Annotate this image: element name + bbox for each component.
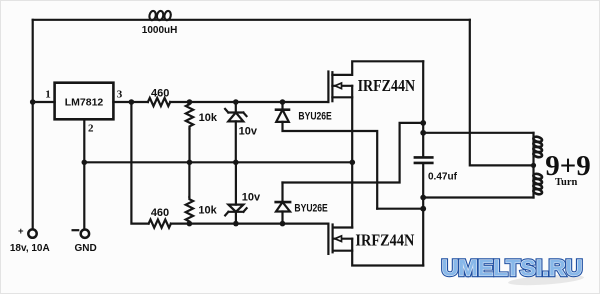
- svg-text:Turn: Turn: [555, 177, 578, 188]
- zener D1 10v (upper): [235, 102, 237, 113]
- node pin1 junction: [30, 99, 36, 105]
- transformer T1 core line: [532, 133, 534, 198]
- svg-text:18v, 10A: 18v, 10A: [10, 243, 50, 254]
- wire transformer top lead: [423, 132, 533, 134]
- svg-text:460: 460: [151, 87, 169, 99]
- node R2/upper-bus junction: [187, 99, 193, 105]
- svg-text:IRFZ44N: IRFZ44N: [358, 76, 416, 95]
- svg-text:10k: 10k: [199, 112, 218, 124]
- svg-text:1000uH: 1000uH: [142, 25, 178, 36]
- node gnd/Q1-source junction: [350, 160, 356, 166]
- wire top rail: [33, 19, 470, 21]
- wire Q1 source to Q2 drain rail: [351, 86, 353, 228]
- node center tap: [531, 163, 536, 168]
- minus sign: [73, 229, 79, 231]
- capacitor C1 0.47uf: [422, 61, 424, 157]
- svg-text:GND: GND: [74, 243, 96, 254]
- transistor Q1 IRFZ44N (upper): [327, 72, 329, 103]
- wire left vertical rail: [32, 20, 34, 229]
- svg-text:2: 2: [88, 123, 94, 135]
- node D4/lower-bus junction: [280, 221, 286, 227]
- resistor R1 460 (upper): [148, 98, 170, 106]
- wire gnd bus: [84, 161, 352, 163]
- wire vertical branch to lower half: [131, 102, 148, 224]
- transformer T1 primary top coil: [533, 136, 543, 158]
- wire BYU26E upper bottom link: [283, 122, 378, 209]
- node R4/lower-bus junction: [187, 221, 193, 227]
- transistor Q2 IRFZ44N (lower): [327, 224, 329, 254]
- wire pin1: [33, 101, 55, 103]
- svg-text:1: 1: [45, 88, 51, 100]
- wire BYU26E lower top link: [283, 123, 424, 183]
- svg-text:3: 3: [117, 89, 123, 101]
- svg-text:460: 460: [151, 207, 169, 219]
- terminal - (GND): [81, 230, 89, 238]
- wire upper gate bus: [170, 101, 328, 103]
- svg-text:LM7812: LM7812: [65, 97, 104, 109]
- wire pin3 to gate bus upper: [113, 101, 147, 103]
- svg-text:BYU26E: BYU26E: [294, 202, 327, 214]
- node D2/upper-bus junction: [280, 99, 286, 105]
- wire 10k lower to gnd bus: [188, 162, 190, 197]
- svg-text:UMELTSI.RU: UMELTSI.RU: [442, 256, 583, 281]
- transformer T1 primary bottom coil: [533, 173, 543, 195]
- svg-text:0.47uf: 0.47uf: [428, 171, 458, 182]
- svg-text:10k: 10k: [198, 205, 217, 217]
- node cap/upperlink junction: [420, 206, 426, 212]
- resistor R4 10k (lower): [186, 197, 193, 224]
- diode D4 BYU26E (lower): [281, 183, 283, 203]
- svg-text:IRFZ44N: IRFZ44N: [355, 230, 415, 249]
- node gnd/pin2 junction: [82, 160, 88, 166]
- svg-text:BYU26E: BYU26E: [298, 110, 331, 122]
- resistor R2 10k (upper): [186, 102, 193, 129]
- node D3/lower-bus junction: [233, 221, 239, 227]
- node cap/transformer-bottom junction: [420, 195, 426, 201]
- inductor L1 loops: [149, 10, 172, 20]
- watermark shadow: [508, 273, 584, 287]
- node drain/lowerlink junction: [420, 120, 426, 126]
- diode D2 BYU26E (upper): [281, 102, 283, 110]
- regulator U1 LM7812: [55, 83, 114, 120]
- wire +V to center tap: [470, 20, 534, 166]
- node drain/transformer-top junction: [420, 130, 426, 136]
- resistor R3 460 (lower): [149, 220, 171, 228]
- terminal + (18v): [28, 229, 36, 237]
- node D1/upper-bus junction: [233, 99, 239, 105]
- wire Q2 source return: [352, 239, 423, 266]
- wire lower gate bus: [171, 223, 329, 225]
- node gnd/D1 junction: [233, 160, 239, 166]
- wire 10k to gnd bus: [188, 129, 190, 163]
- svg-text:10v: 10v: [242, 191, 261, 203]
- node gnd/R2 junction: [187, 160, 193, 166]
- node pin3/lower branch junction: [129, 99, 135, 105]
- wire pin2 / GND vertical: [83, 119, 85, 228]
- zener D3 10v (lower): [235, 162, 237, 204]
- svg-text:+: +: [18, 226, 24, 237]
- wire transformer bottom lead: [423, 196, 533, 198]
- svg-text:10v: 10v: [239, 125, 258, 137]
- wire upper link left: [377, 208, 423, 210]
